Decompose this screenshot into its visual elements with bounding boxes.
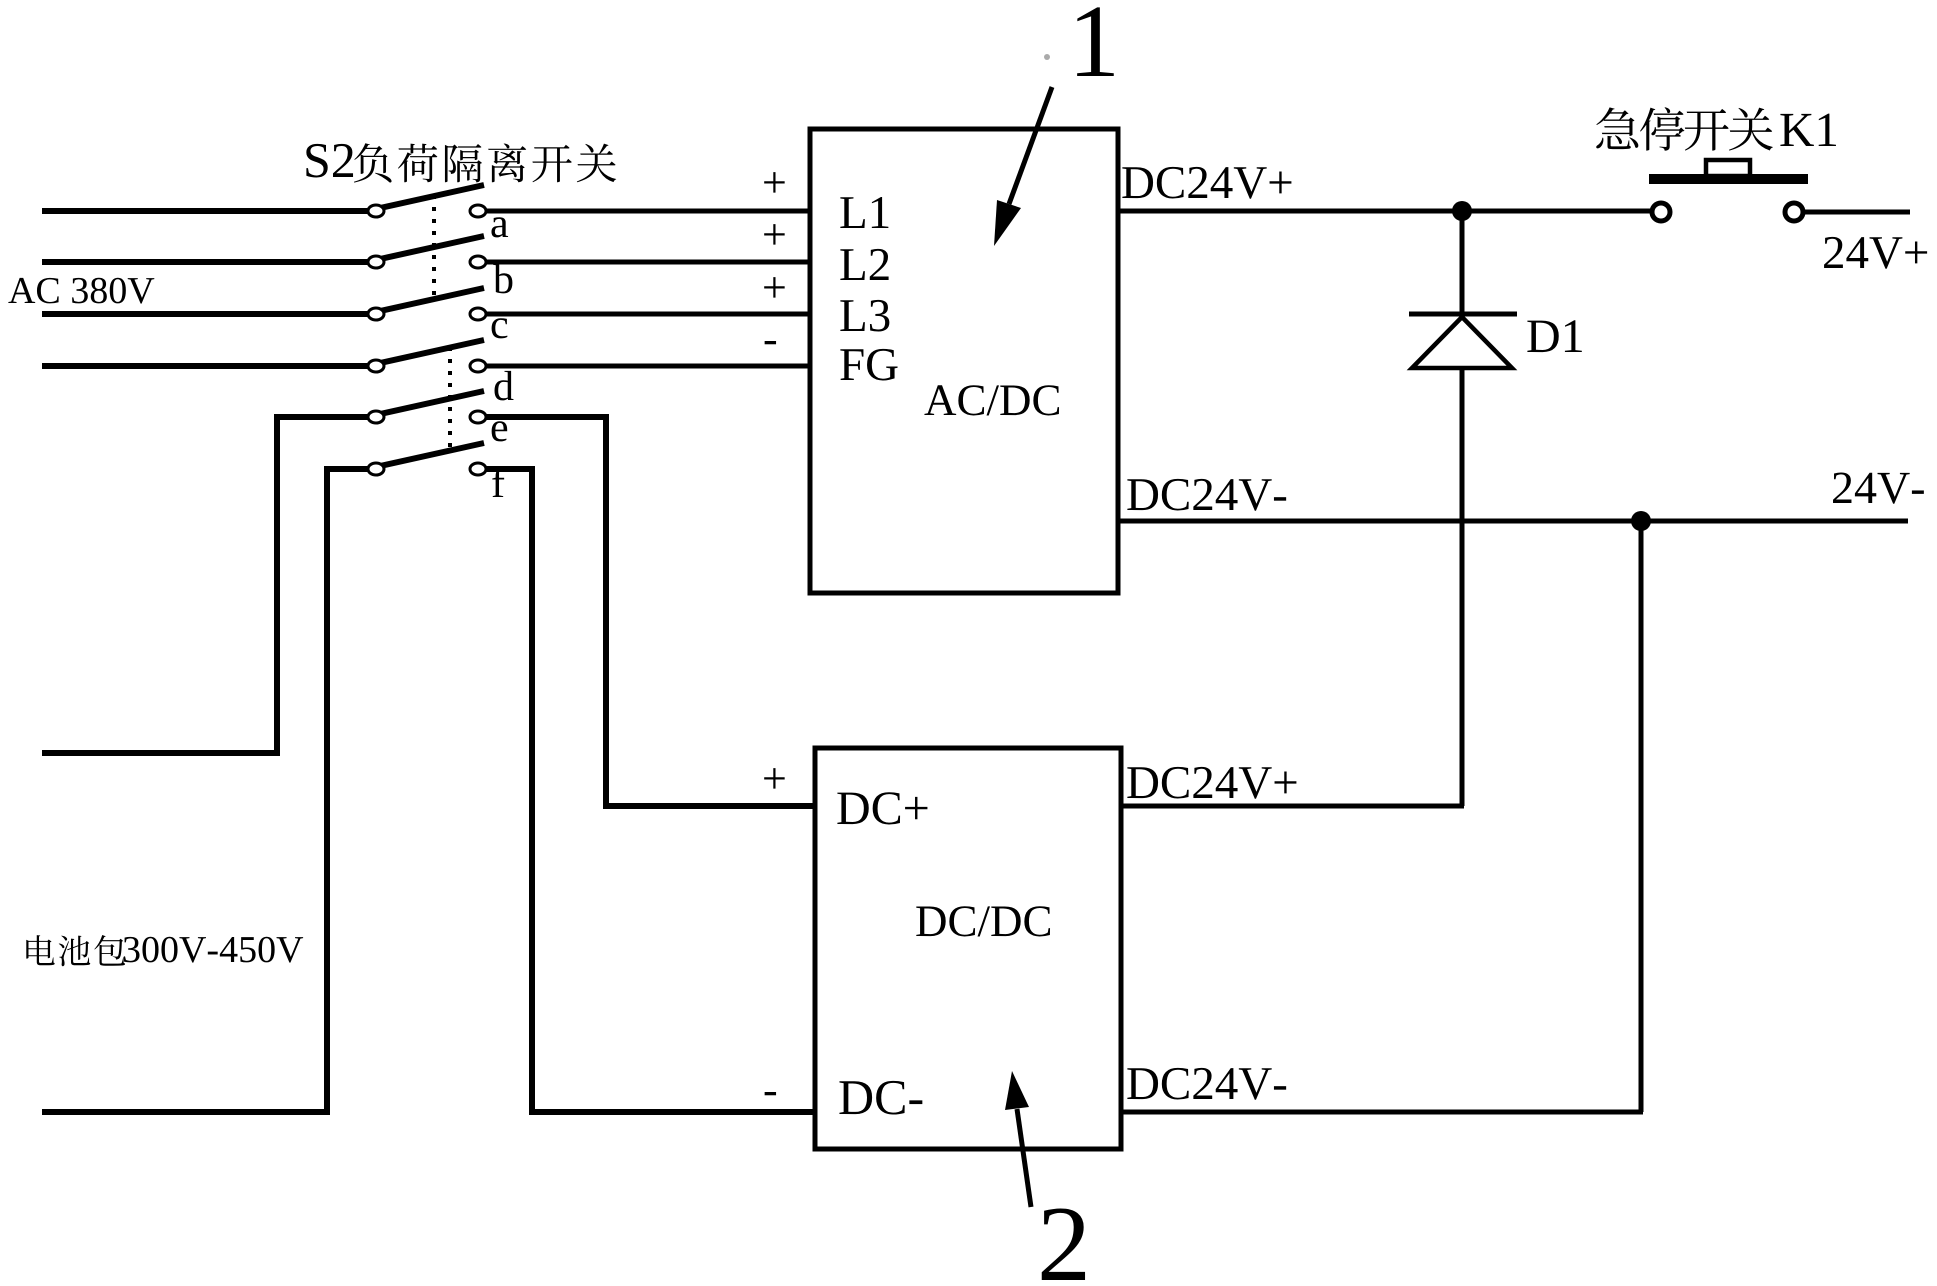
callout arrow 1 (to AC/DC): [994, 87, 1052, 246]
pin label L3: [840, 300, 889, 332]
wire battery positive to pole e: [42, 417, 369, 753]
pin label DC+: [837, 792, 927, 824]
wire pole e to DC+ input: [486, 417, 817, 806]
contact label c: [492, 318, 508, 338]
wire pole a to L1: [486, 209, 812, 214]
callout label 1: [1077, 7, 1114, 76]
pin label FG: [840, 349, 897, 381]
contact label e: [492, 421, 508, 441]
label battery pack 300V-450V: [26, 935, 303, 966]
wire DC24V- output to 24V- branch: [1121, 1110, 1643, 1115]
polarity + (L3): [764, 277, 784, 297]
label emergency stop switch K1: [1596, 107, 1836, 151]
label 24V-: [1833, 473, 1924, 504]
label DC/DC: [916, 906, 1050, 936]
ganged link poles d-f (dotted): [448, 347, 452, 455]
callout arrow 2 (to DC/DC): [1005, 1071, 1031, 1207]
polarity + (DC+): [764, 768, 784, 788]
wire battery negative to pole f: [42, 469, 369, 1112]
pin label L2: [840, 249, 888, 280]
stray ink speck: [1044, 54, 1050, 60]
switch S2 pole c: [368, 288, 486, 320]
emergency stop switch K1: [1649, 160, 1910, 221]
switch S2 pole b: [368, 236, 486, 268]
AC/DC converter 1 box: [810, 129, 1118, 593]
label DC24V- DC/DC output: [1127, 1068, 1286, 1100]
wire AC PE input: [42, 363, 369, 369]
polarity + (L2): [764, 224, 784, 244]
contact label b: [493, 264, 512, 294]
node 24V+ / D1 junction: [1452, 201, 1472, 221]
contact label f: [492, 467, 505, 497]
callout label 2: [1042, 1208, 1085, 1280]
label DC24V+ DC/DC output: [1127, 767, 1296, 799]
wire 24V- vertical branch: [1639, 521, 1644, 1112]
node 24V- / DC24V- junction: [1631, 511, 1651, 531]
switch S2 pole f: [368, 443, 486, 475]
polarity - (FG): [765, 341, 776, 344]
contact label d: [495, 371, 514, 401]
pin label DC-: [839, 1081, 922, 1115]
label 24V+: [1824, 237, 1927, 269]
polarity - (DC-): [765, 1092, 776, 1095]
contact label a: [491, 217, 508, 237]
wire 24V- rail: [1118, 519, 1908, 524]
wire pole f to DC- input: [486, 469, 817, 1112]
label DC24V- AC/DC output: [1127, 479, 1286, 511]
wire 24V+ rail: [1118, 209, 1650, 214]
wire pole c to L3: [486, 312, 812, 317]
wire DC24V+ output to D1 anode: [1121, 804, 1464, 809]
wire AC phase 1 input: [42, 208, 369, 214]
switch S2 pole e: [368, 391, 486, 423]
switch S2 pole d: [368, 340, 486, 372]
switch S2 pole a: [368, 185, 486, 217]
wire AC phase 2 input: [42, 259, 369, 265]
polarity + (L1): [764, 172, 784, 192]
label DC24V+ AC/DC output: [1122, 167, 1291, 199]
DC/DC converter 2 box: [815, 748, 1121, 1149]
wire AC phase 3 input: [42, 311, 369, 317]
wire pole d to FG: [486, 364, 812, 369]
pin label L1: [840, 197, 888, 228]
label S2 load isolation switch: [306, 143, 616, 182]
label AC/DC: [924, 385, 1059, 415]
wire pole b to L2: [486, 260, 812, 265]
ganged link poles a-c (dotted): [432, 195, 436, 303]
diode D1: [1409, 211, 1517, 806]
label AC 380V: [8, 278, 154, 304]
label D1: [1527, 320, 1581, 352]
